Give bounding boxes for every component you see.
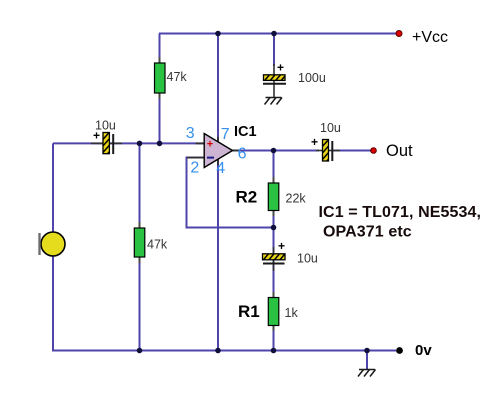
wire bottom 0v rail (53, 350, 396, 352)
wire top supply rail (159, 33, 396, 35)
svg-text:6: 6 (238, 146, 247, 163)
svg-text:1k: 1k (285, 306, 299, 320)
wire lower 47k branch (139, 143, 141, 350)
wire feedback from pin2 (187, 158, 274, 228)
svg-text:IC1 = TL071, NE5534,: IC1 = TL071, NE5534, (319, 204, 482, 221)
capacitor C feedback 10u negative plate (263, 263, 285, 265)
node junction top rail 100u (271, 31, 277, 37)
node junction top rail pin7 (215, 31, 221, 37)
svg-text:47k: 47k (167, 70, 188, 84)
wire dark lead into pin2 (187, 157, 205, 159)
capacitor C input 10u leads (91, 142, 103, 144)
resistor R lower 47k leads (139, 222, 141, 263)
svg-text:IC1: IC1 (234, 124, 257, 140)
svg-text:10u: 10u (320, 121, 341, 135)
resistor R1 body (268, 298, 279, 326)
capacitor C input 10u negative plate (112, 134, 114, 154)
svg-text:10u: 10u (297, 252, 318, 266)
wire mic branch down (52, 143, 54, 351)
node junction 0v rail pin4 (215, 348, 221, 354)
microphone MIC1 body (41, 232, 65, 256)
resistor R upper 47k body (155, 63, 166, 93)
resistor R1 leads (273, 292, 275, 331)
terminal +Vcc (396, 31, 402, 37)
node junction 0v rail ground (364, 348, 370, 354)
capacitor C 100u leads (273, 64, 275, 84)
capacitor C output 10u positive plate (321, 138, 330, 168)
capacitor C output 10u negative plate (331, 141, 333, 161)
svg-text:R1: R1 (238, 302, 260, 321)
svg-text:10u: 10u (95, 119, 116, 133)
wire output after cap to Out terminal (333, 150, 371, 152)
wire feedback cap and R1 branch (273, 228, 275, 351)
node junction input line upper 47k (157, 141, 163, 147)
svg-text:OPA371 etc: OPA371 etc (323, 224, 412, 241)
node junction 0v rail lower 47k (137, 348, 143, 354)
wire R2 branch (273, 151, 275, 228)
microphone flat element bar (38, 233, 40, 255)
capacitor C output 10u leads (316, 150, 323, 152)
node junction 0v rail R1 (271, 348, 277, 354)
node junction output (271, 148, 277, 154)
wire 100u branch (273, 34, 275, 67)
resistor R upper 47k leads (159, 57, 161, 99)
svg-text:+: + (277, 61, 284, 75)
svg-text:+: + (278, 239, 285, 253)
wire ground stub on 0v rail (366, 351, 368, 370)
op-amp minus marking (207, 157, 214, 159)
wire input line mic coupling to pin3 (53, 142, 204, 144)
svg-text:0v: 0v (415, 342, 432, 359)
capacitor C 100u negative plate (263, 83, 286, 85)
ground under 100u (265, 98, 283, 105)
svg-text:R2: R2 (236, 188, 258, 207)
terminal 0v (396, 347, 403, 354)
capacitor C input 10u positive plate (102, 131, 111, 161)
wire dark lead pin4 (217, 158, 219, 165)
wire dark lead output (232, 150, 239, 152)
svg-text:47k: 47k (147, 238, 168, 252)
wire op-amp pin4 down (217, 160, 219, 351)
svg-text:+: + (207, 139, 213, 151)
node junction feedback (271, 225, 277, 231)
op-amp U IC1 body (204, 134, 232, 168)
svg-text:7: 7 (221, 126, 230, 143)
capacitor C feedback 10u lead (273, 247, 275, 264)
node junction input line lower 47k (137, 141, 143, 147)
capacitor C feedback 10u positive plate (262, 252, 287, 262)
wire left branch from rail down to input node (159, 34, 161, 144)
wire output line (233, 150, 319, 152)
svg-text:4: 4 (216, 160, 225, 177)
resistor R2 body (268, 183, 279, 211)
svg-text:+Vcc: +Vcc (412, 29, 448, 46)
svg-text:Out: Out (386, 142, 413, 160)
svg-text:2: 2 (190, 160, 199, 177)
resistor R lower 47k body (134, 228, 145, 257)
capacitor C 100u positive plate (263, 73, 288, 83)
resistor R2 leads (273, 177, 275, 216)
svg-text:100u: 100u (298, 71, 326, 85)
svg-text:+: + (311, 135, 318, 149)
svg-text:22k: 22k (286, 191, 307, 205)
svg-text:3: 3 (186, 125, 195, 142)
wire dark lead pin7 (217, 137, 219, 143)
ground on 0v rail (358, 370, 376, 377)
wire dark lead into pin3 (196, 142, 205, 144)
wire op-amp pin7 supply (217, 34, 219, 142)
terminal Out (371, 148, 377, 154)
